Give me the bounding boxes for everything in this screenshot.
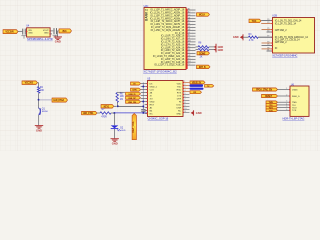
svg-text:11: 11	[184, 111, 186, 113]
svg-text:GND: GND	[44, 33, 49, 35]
wire blue net to U5	[114, 112, 147, 114]
svg-text:10K: 10K	[40, 90, 45, 92]
svg-text:1: 1	[184, 81, 185, 83]
wire R6 top bend	[117, 91, 125, 93]
svg-text:T7: T7	[188, 52, 190, 54]
svg-text:10: 10	[184, 108, 186, 110]
svg-text:J9: J9	[188, 32, 190, 34]
svg-text:D4: D4	[188, 17, 190, 19]
blue net bar TXD	[190, 84, 204, 87]
wire R4 to node	[38, 93, 40, 100]
wire LED to ground	[114, 129, 116, 138]
U2C pin connection stripe	[186, 9, 188, 69]
svg-text:L2: L2	[188, 38, 190, 40]
svg-text:JTAG: JTAG	[292, 88, 298, 91]
resistor R6	[116, 93, 118, 103]
svg-text:INIT_B: INIT_B	[199, 66, 206, 69]
svg-text:TMS: TMS	[292, 102, 297, 104]
svg-text:GND: GND	[218, 49, 224, 52]
svg-text:U8: U8	[188, 55, 190, 57]
wire stub U5 left row 4	[141, 92, 145, 94]
junction bus row7	[142, 101, 144, 103]
port VCC5V0	[3, 30, 18, 34]
svg-text:2: 2	[184, 84, 185, 86]
port 3V3	[59, 29, 72, 33]
svg-text:10K: 10K	[120, 96, 125, 98]
svg-text:Y2: Y2	[188, 64, 190, 66]
svg-text:TCK: TCK	[292, 110, 297, 112]
svg-text:NC: NC	[150, 113, 154, 115]
svg-text:IO_L21P_T3_DQS_A18_16: IO_L21P_T3_DQS_A18_16	[154, 64, 185, 67]
wire node L down to LED	[114, 113, 116, 125]
port TCK	[266, 109, 278, 112]
U5 right-side pins	[182, 81, 189, 113]
svg-text:E5: E5	[188, 20, 190, 22]
FPGA config U2B body	[273, 18, 315, 54]
USB interface U5 body	[148, 81, 184, 117]
svg-text:GND: GND	[196, 111, 202, 115]
svg-text:2: 2	[286, 95, 287, 97]
regulator U4 body	[26, 28, 51, 37]
svg-text:DSR: DSR	[177, 107, 182, 109]
wire VCC5V0 to C1	[18, 30, 22, 32]
wire pin to R9b	[196, 49, 199, 51]
port USB_DM	[126, 100, 141, 104]
U6 left-side pins	[285, 88, 291, 111]
svg-text:KEY1: KEY1	[104, 105, 110, 108]
svg-text:HDR-TH_6P-JTAG: HDR-TH_6P-JTAG	[283, 117, 305, 121]
U2C right-side pins	[186, 8, 196, 66]
junction node L	[113, 112, 115, 114]
capacitor C1	[21, 29, 26, 39]
svg-text:P2: P2	[267, 31, 269, 33]
wire TCK to U6	[278, 109, 286, 111]
wire KEY1 to node	[114, 105, 117, 107]
svg-text:MCLK: MCLK	[199, 14, 206, 17]
resistor R4	[37, 87, 39, 94]
svg-text:V9: V9	[188, 58, 190, 60]
wire C1 to U4 VIN	[25, 30, 28, 32]
LED D2	[111, 125, 126, 132]
blue net bar RXD	[190, 88, 204, 90]
transistor Q1	[39, 108, 49, 115]
svg-text:TDO: TDO	[292, 108, 297, 110]
port MCLK	[197, 13, 210, 17]
svg-text:LED: LED	[121, 130, 126, 132]
svg-text:DTR: DTR	[132, 90, 137, 92]
svg-text:4: 4	[184, 90, 185, 92]
svg-text:FPGA_JTAG_EN: FPGA_JTAG_EN	[256, 89, 272, 92]
svg-text:USB_DP: USB_DP	[128, 98, 136, 100]
svg-text:5: 5	[184, 93, 185, 95]
svg-text:P5: P5	[267, 44, 269, 46]
port INIT_B	[197, 65, 211, 69]
wire stub U5 left row 1	[141, 83, 145, 85]
FPGA bank U2C body	[144, 8, 186, 70]
wire TDO to U6	[278, 107, 286, 109]
wire R3 to U2B	[258, 36, 272, 38]
svg-text:RXD: RXD	[177, 89, 182, 91]
port UART_TX	[205, 85, 214, 88]
port VCC3V3	[22, 81, 38, 85]
wire RESET to U6	[278, 95, 286, 97]
junction bus node blue	[142, 112, 144, 114]
ground near C2	[54, 37, 62, 44]
svg-text:RST: RST	[150, 104, 155, 106]
svg-text:VDD: VDD	[177, 83, 182, 85]
svg-text:TCK: TCK	[252, 20, 257, 23]
port KEY1	[101, 105, 114, 109]
svg-text:GND: GND	[112, 142, 118, 146]
wire R8a to flag	[209, 46, 215, 48]
svg-text:VBUS_5V: VBUS_5V	[192, 82, 202, 84]
svg-text:F6: F6	[188, 23, 190, 25]
wire flag to R3	[243, 36, 248, 38]
svg-text:C3: C3	[188, 14, 190, 16]
net flag GND right of U5	[191, 110, 202, 115]
junction bus node K	[142, 105, 144, 107]
port U5 5V	[131, 82, 141, 86]
svg-text:GND: GND	[176, 113, 181, 115]
svg-text:SPX3819M5-L-3-3/TR: SPX3819M5-L-3-3/TR	[27, 37, 53, 41]
svg-text:IO: IO	[275, 47, 278, 50]
resistor R7	[100, 112, 111, 114]
svg-text:K1: K1	[188, 35, 190, 37]
capacitor C2	[53, 28, 58, 38]
svg-text:P1: P1	[267, 50, 269, 52]
port FPGA_JTAG_EN	[253, 88, 278, 92]
wire stub U5 left row 3	[141, 89, 145, 91]
wire TMS to U6	[278, 101, 286, 103]
svg-text:N4: N4	[188, 43, 190, 45]
port RESET	[262, 94, 278, 98]
resistor R8	[198, 46, 209, 48]
port VBUS right	[190, 81, 205, 85]
svg-text:1%: 1%	[120, 99, 123, 101]
wire U4 VOUT pin	[50, 30, 53, 32]
svg-text:GND: GND	[150, 101, 155, 103]
wire stub U5 left row 6	[141, 98, 145, 100]
net flag GND mid	[233, 34, 243, 40]
wire R6 top	[116, 91, 118, 93]
port TMS	[266, 101, 278, 104]
svg-text:H8: H8	[188, 29, 190, 31]
svg-text:GND: GND	[28, 33, 33, 35]
svg-text:R6: R6	[188, 49, 190, 51]
svg-text:6: 6	[184, 96, 185, 98]
junction bus row2	[142, 86, 144, 88]
wire node to FPGA_LED port	[39, 99, 52, 101]
svg-text:470R: 470R	[101, 116, 107, 118]
svg-text:XC7A35T-1FGG484C_B2: XC7A35T-1FGG484C_B2	[143, 69, 177, 73]
svg-text:IO_L2P_T0_D02_14: IO_L2P_T0_D02_14	[275, 22, 297, 25]
svg-text:6: 6	[286, 109, 287, 111]
svg-text:S8050: S8050	[42, 111, 49, 113]
port TDO	[266, 106, 278, 109]
svg-text:GND_1: GND_1	[150, 86, 158, 88]
svg-text:3: 3	[286, 101, 287, 103]
wire R7 to node2	[111, 112, 114, 114]
svg-text:BANK 2: BANK 2	[145, 9, 149, 21]
wire stub U5 left row 2	[141, 86, 145, 88]
svg-text:GND: GND	[233, 35, 239, 39]
junction node Q1-collector	[38, 99, 40, 101]
wire R6 to node K	[116, 102, 118, 105]
svg-text:KEY_COL: KEY_COL	[131, 121, 135, 133]
svg-text:DTR: DTR	[177, 98, 182, 100]
svg-text:9: 9	[184, 105, 185, 107]
port USB_ID	[126, 92, 141, 96]
svg-text:9600_S: 9600_S	[292, 96, 300, 98]
vertical bus wire left of U5	[142, 82, 144, 113]
svg-text:5: 5	[286, 106, 287, 108]
svg-text:P5: P5	[188, 46, 190, 48]
svg-text:DONE: DONE	[199, 52, 206, 55]
U5 left-side pins	[145, 83, 149, 115]
wire node K to U5 column	[118, 105, 143, 107]
net flag GND pair	[214, 44, 224, 53]
svg-text:LED_CTRL: LED_CTRL	[83, 113, 94, 115]
svg-text:DCD: DCD	[176, 104, 181, 106]
port TCK	[249, 19, 261, 23]
wire C2 to 3V3 port	[57, 30, 58, 32]
svg-text:GND: GND	[36, 128, 42, 132]
wire Q1 emitter to ground	[38, 115, 40, 125]
svg-text:USB_DM: USB_DM	[128, 102, 136, 104]
svg-text:LED_FPGA: LED_FPGA	[53, 99, 64, 102]
svg-text:7: 7	[184, 99, 185, 101]
svg-text:CH340C_SOP-16: CH340C_SOP-16	[148, 117, 169, 121]
svg-text:8: 8	[184, 102, 185, 104]
wire down to R4	[38, 83, 40, 87]
svg-text:USB_ID: USB_ID	[129, 94, 136, 96]
svg-text:A1: A1	[188, 8, 190, 11]
svg-text:RTS: RTS	[177, 92, 182, 94]
junction node K	[117, 105, 119, 107]
svg-text:4: 4	[286, 103, 287, 105]
wire stub U5 left row 5	[141, 95, 145, 97]
svg-text:VCC3V3: VCC3V3	[25, 82, 34, 85]
resistor R9	[198, 48, 209, 50]
svg-text:VCC5V0: VCC5V0	[5, 31, 14, 34]
wire JTAG_EN to U6	[278, 89, 286, 91]
wire tap to GND	[57, 31, 59, 37]
ground LED	[111, 139, 119, 146]
port U5 DTR	[131, 88, 141, 92]
svg-text:CLK: CLK	[150, 89, 155, 91]
svg-text:P0: P0	[267, 19, 269, 21]
wire port to R4	[38, 82, 39, 84]
svg-text:CTS: CTS	[177, 95, 182, 97]
resistor R3	[248, 36, 258, 38]
svg-text:4.7K: 4.7K	[249, 40, 254, 42]
svg-text:M3: M3	[188, 41, 191, 43]
U2B left-side pins	[258, 19, 273, 52]
svg-text:GPTJAR_2: GPTJAR_2	[275, 41, 287, 44]
wire stub U5 left row 7	[141, 101, 145, 103]
svg-text:G7: G7	[188, 26, 190, 28]
wire LED_CTRL to R7	[97, 112, 100, 114]
svg-text:1: 1	[286, 88, 287, 90]
wire pin to R8a	[196, 46, 199, 48]
port USB_DP	[126, 96, 141, 100]
port FPGA_LED	[52, 98, 68, 102]
svg-text:GND: GND	[55, 40, 61, 44]
port UART_RX	[190, 91, 202, 95]
vertical port KEY_COL	[131, 114, 136, 140]
svg-text:NC: NC	[178, 110, 182, 112]
svg-text:3: 3	[184, 87, 185, 89]
svg-text:GPTJAR_2: GPTJAR_2	[275, 29, 287, 32]
wire U4 GND pin stub	[50, 33, 52, 35]
svg-text:TXD: TXD	[177, 86, 182, 88]
svg-text:RESET: RESET	[265, 96, 272, 98]
svg-text:P3: P3	[267, 22, 269, 24]
svg-text:TDI: TDI	[292, 105, 296, 107]
port DONE	[197, 52, 210, 56]
wire R9b to flag	[209, 49, 215, 51]
capacitor C9	[141, 106, 145, 113]
wire TDI to U6	[278, 104, 286, 106]
wire node to Q1	[38, 100, 40, 108]
port LED_CTRL	[82, 111, 98, 115]
svg-text:XC7A35T-1FGG484C: XC7A35T-1FGG484C	[272, 54, 297, 58]
svg-text:B2: B2	[188, 12, 190, 14]
svg-text:XO: XO	[150, 98, 153, 100]
svg-text:TCK: TCK	[269, 110, 274, 112]
JTAG header U6 body	[290, 86, 309, 116]
port TDI	[266, 104, 278, 107]
svg-text:W1: W1	[188, 61, 191, 63]
ground Q1	[35, 126, 43, 133]
